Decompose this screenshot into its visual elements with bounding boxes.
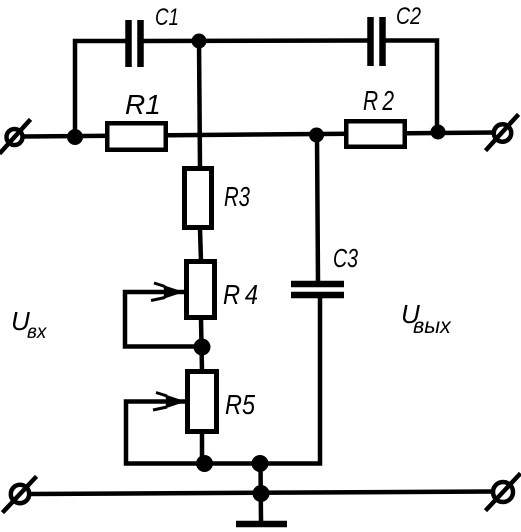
svg-text:R 2: R 2 [363, 85, 394, 116]
svg-text:C1: C1 [155, 4, 179, 31]
svg-text:вх: вх [27, 322, 48, 343]
svg-text:C3: C3 [333, 243, 358, 273]
svg-text:вых: вых [413, 314, 452, 338]
svg-text:R1: R1 [125, 89, 161, 120]
svg-text:R5: R5 [225, 389, 255, 420]
svg-text:R 4: R 4 [223, 279, 258, 310]
svg-text:R3: R3 [224, 181, 250, 212]
svg-text:C2: C2 [396, 3, 421, 30]
